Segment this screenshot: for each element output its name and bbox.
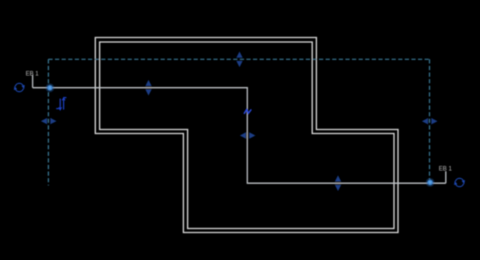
svg-text:EB 1: EB 1 bbox=[26, 72, 40, 78]
svg-text:EB 1: EB 1 bbox=[439, 167, 453, 173]
